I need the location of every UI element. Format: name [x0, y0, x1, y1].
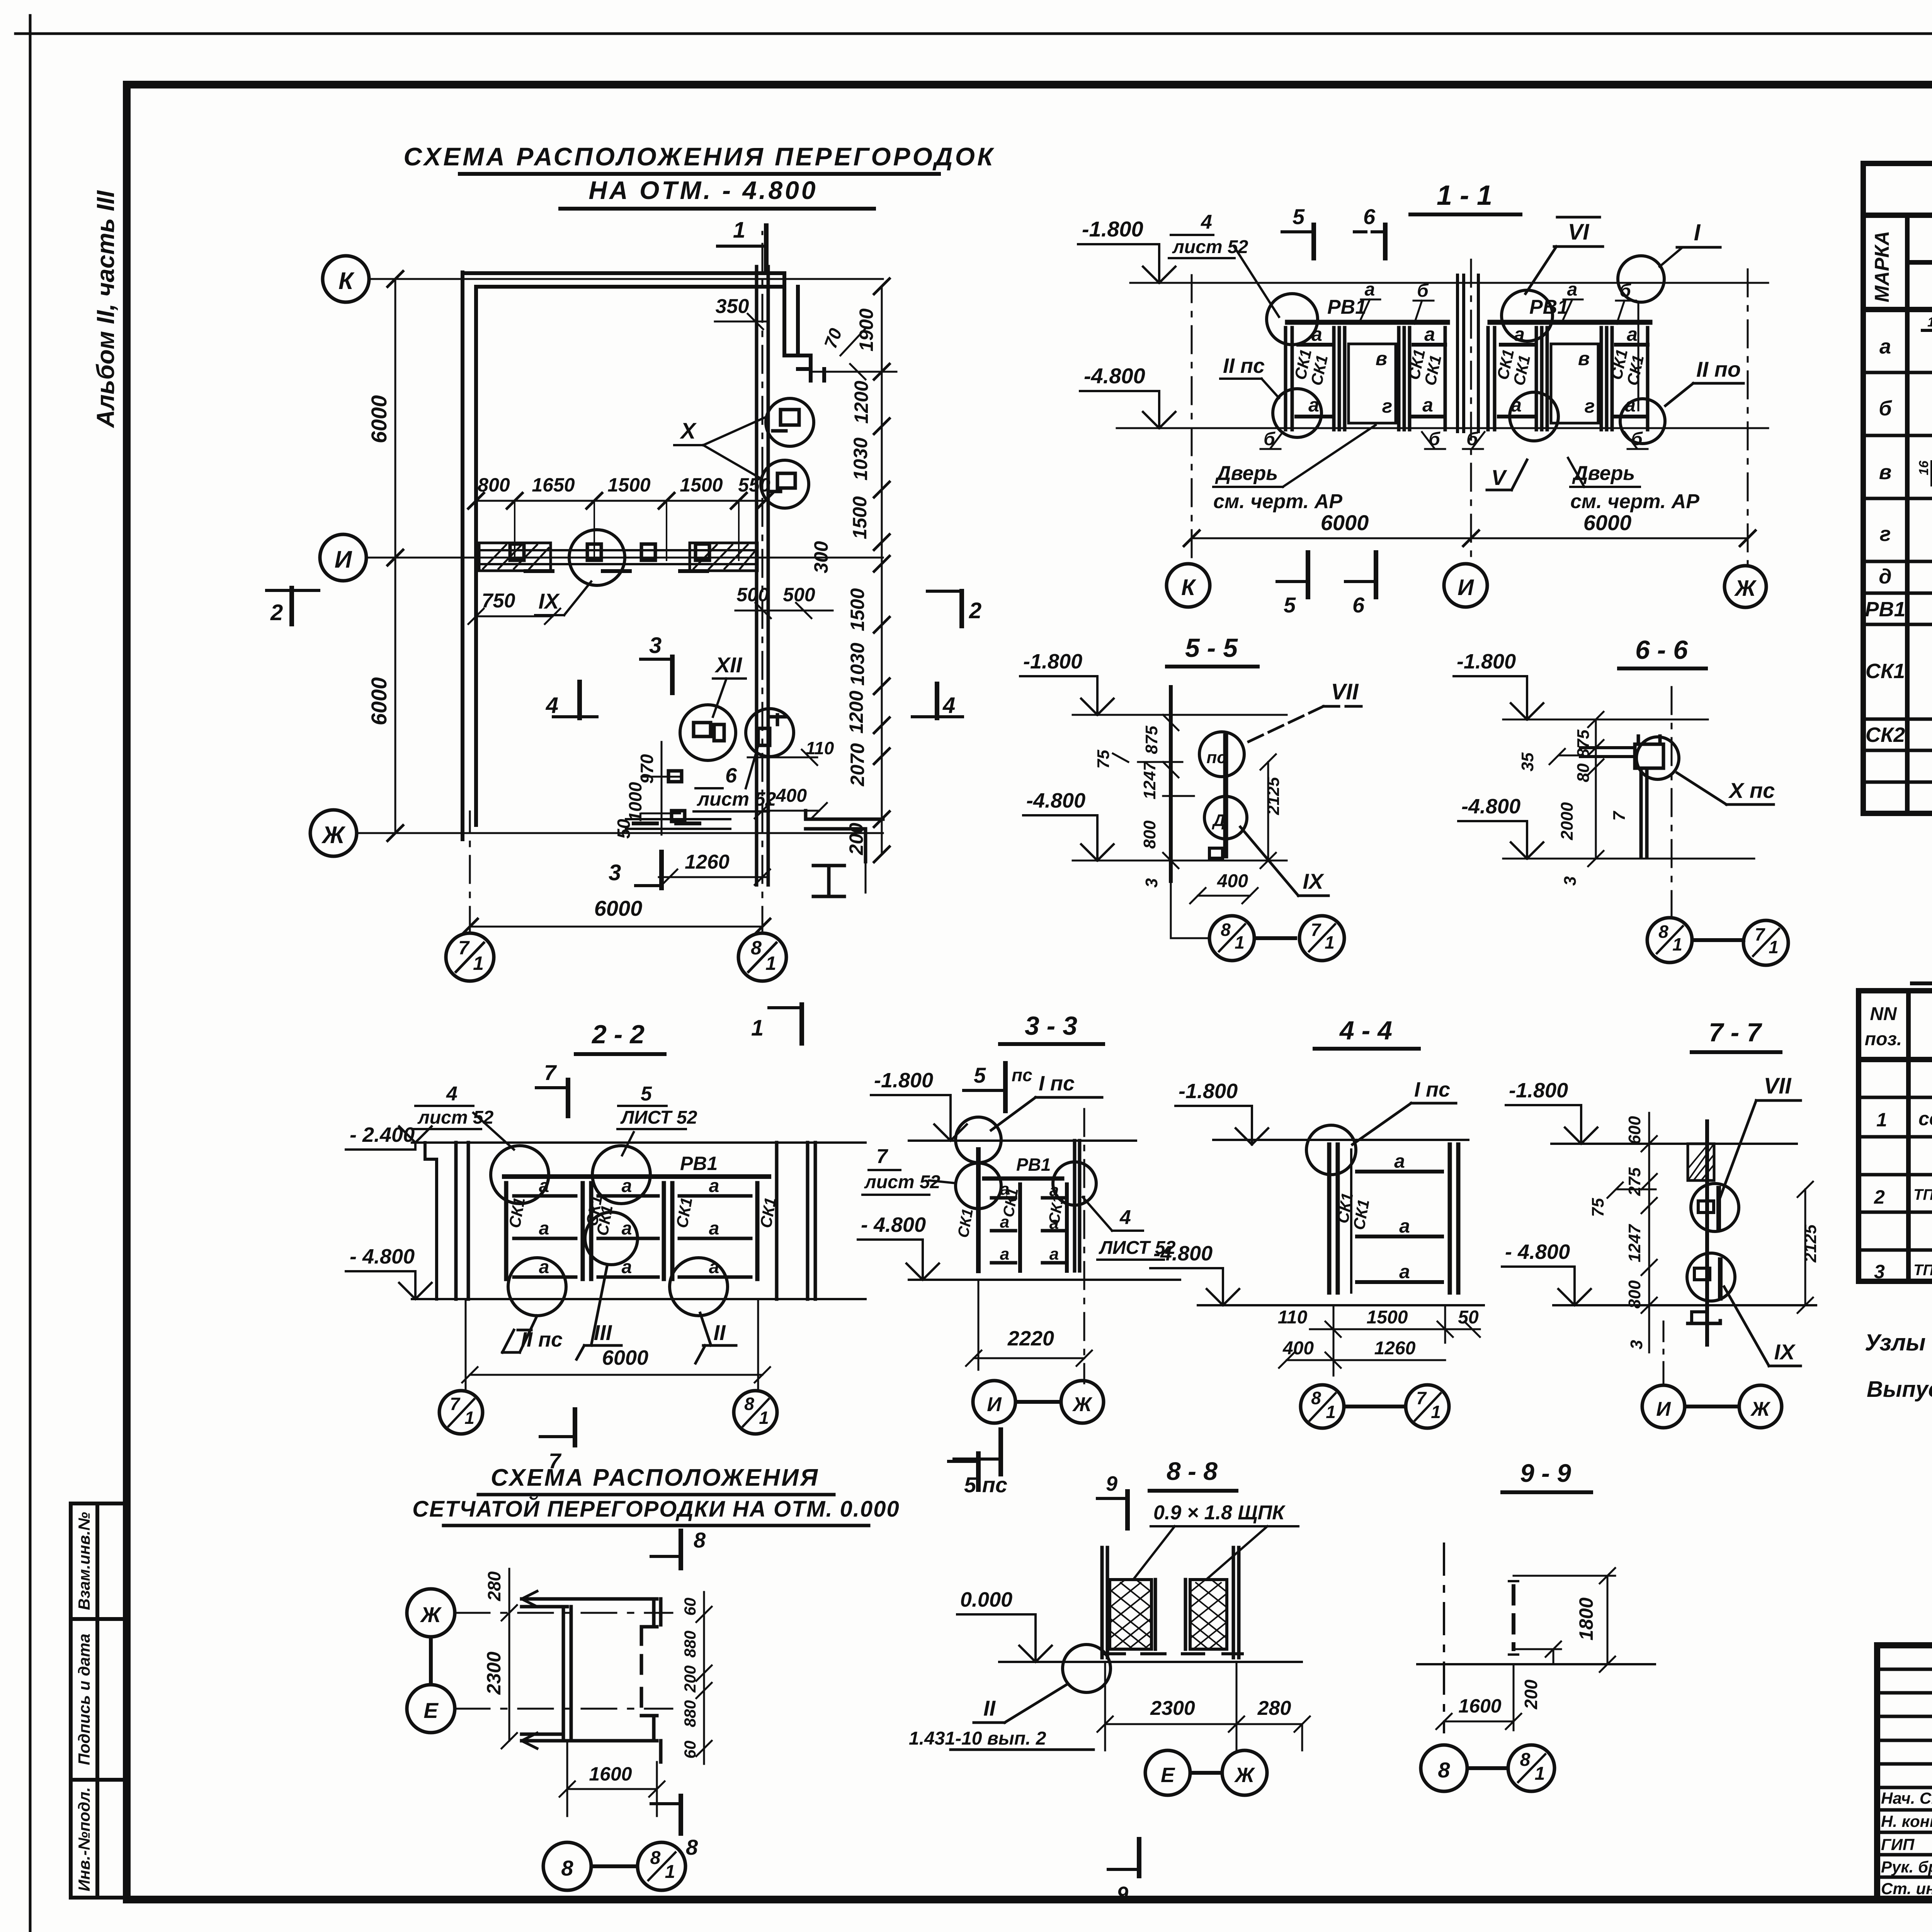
svg-text:6000: 6000 [1583, 510, 1632, 535]
svg-text:800: 800 [1625, 1280, 1644, 1309]
svg-text:500: 500 [736, 584, 769, 605]
svg-text:-1.800: -1.800 [874, 1069, 933, 1092]
svg-text:Выпуск 0: Выпуск 0 [1867, 1377, 1932, 1402]
level -1.800 [1020, 650, 1114, 715]
axis circle 8 9-9 [1421, 1745, 1467, 1791]
spec column lines [1908, 991, 1932, 1281]
svg-text:а: а [1422, 394, 1433, 416]
svg-text:- 2.400: - 2.400 [350, 1123, 415, 1146]
svg-text:б: б [1264, 429, 1276, 449]
axis Zh dash line [1747, 269, 1749, 564]
svg-text:Узлы I , II , III , IV , V ,: Узлы I , II , III , IV , V , VI , VII , … [1865, 1330, 1932, 1355]
dim 2300 setka [483, 1605, 517, 1748]
RV1 bar 3-3 [984, 1177, 1062, 1181]
level -4.800 2-2 [346, 1245, 432, 1299]
svg-text:Рук. бр.: Рук. бр. [1881, 1858, 1932, 1876]
svg-text:И: И [335, 546, 352, 573]
svg-text:II по: II по [1696, 357, 1741, 381]
svg-text:СК2: СК2 [1866, 723, 1905, 747]
dim 1800 9-9 [1514, 1568, 1641, 1672]
vedomost row lines [1863, 341, 1932, 782]
hatched top box 7-7 [1688, 1144, 1714, 1180]
rails a 4-4 [1357, 1172, 1442, 1282]
axis circle I 3-3 [973, 1381, 1015, 1423]
section mark 3 top [641, 633, 672, 693]
svg-text:б: б [1631, 429, 1643, 449]
svg-text:СЕТЧАТОЙ ПЕРЕГОРОДКИ НА ОТМ. 0: СЕТЧАТОЙ ПЕРЕГОРОДКИ НА ОТМ. 0.000 [412, 1496, 900, 1522]
hatched box right on I [690, 543, 757, 571]
axis circle K sec11 [1167, 564, 1210, 607]
panel group I-Zh [1463, 279, 1650, 449]
svg-text:4: 4 [546, 693, 558, 718]
svg-text:2070: 2070 [847, 743, 868, 786]
svg-text:Х пс: Х пс [1728, 778, 1775, 803]
panel rails 3-3 [992, 1198, 1064, 1263]
dim 1900 top tail [811, 364, 896, 379]
svg-text:8: 8 [686, 1835, 698, 1859]
svg-text:а: а [709, 1218, 719, 1239]
detail circle D [1204, 796, 1247, 839]
svg-text:- 4.800: - 4.800 [1505, 1240, 1570, 1264]
svg-text:8: 8 [650, 1848, 661, 1868]
svg-text:1: 1 [665, 1862, 675, 1882]
svg-text:I: I [1694, 219, 1701, 245]
dim 400 5-5 [1190, 871, 1258, 903]
svg-text:а: а [1627, 323, 1638, 345]
SK1 rotated labels 2-2 [505, 1194, 780, 1237]
label III 2-2 [577, 1264, 621, 1359]
axis circle Zh 3-3 [1061, 1381, 1104, 1423]
svg-text:Ж: Ж [1234, 1764, 1255, 1787]
axis circle 8 setka [543, 1842, 591, 1890]
svg-text:-4.800: -4.800 [1153, 1242, 1213, 1265]
label II 1.431-10 [909, 1685, 1094, 1750]
svg-text:-1.800: -1.800 [1509, 1079, 1568, 1102]
svg-text:200: 200 [681, 1665, 699, 1693]
right dim chain vertical [874, 279, 889, 862]
left double stile [456, 1143, 468, 1299]
dim 200 9-9 [1514, 1641, 1561, 1709]
svg-text:Ж: Ж [1072, 1393, 1093, 1416]
Zh axis wall 3-3 [1075, 1141, 1080, 1271]
svg-text:Х: Х [680, 418, 697, 444]
svg-text:V: V [1491, 465, 1507, 490]
SK1 rotated 3-3 [955, 1187, 1067, 1239]
svg-text:2220: 2220 [1007, 1327, 1054, 1350]
svg-text:2125: 2125 [1801, 1225, 1820, 1263]
section mark 8 top setka [651, 1528, 706, 1568]
svg-text:1500: 1500 [847, 588, 868, 631]
svg-text:К: К [338, 268, 355, 294]
svg-text:IX: IX [1303, 869, 1325, 893]
svg-text:I пс: I пс [1039, 1072, 1075, 1095]
section mark 8 bottom setka [651, 1796, 698, 1859]
dim 750 [468, 590, 560, 624]
svg-text:110: 110 [1278, 1307, 1308, 1328]
svg-text:1: 1 [751, 1015, 764, 1041]
level line top 6-6 [1503, 719, 1708, 721]
panel grid 2-2 [506, 1183, 757, 1279]
RV1 top bar [1287, 320, 1447, 325]
level line bottom [1117, 427, 1768, 429]
svg-text:МАРКА: МАРКА [1871, 231, 1893, 302]
svg-text:9: 9 [1117, 1883, 1128, 1906]
svg-text:5: 5 [1284, 593, 1296, 617]
dims rotated 5-5 [1094, 726, 1283, 888]
svg-text:1600: 1600 [1458, 1695, 1501, 1717]
svg-text:Альбом II, часть III: Альбом II, часть III [92, 190, 119, 429]
axis circle Zh 7-7 [1739, 1385, 1782, 1428]
label Xps [1677, 773, 1775, 804]
svg-text:а: а [1399, 1261, 1410, 1282]
svg-text:д: д [1879, 565, 1891, 588]
dim 200 bottom right [865, 862, 867, 893]
svg-text:350: 350 [716, 295, 749, 318]
label VI [1526, 217, 1603, 294]
svg-text:Взам.инв.№: Взам.инв.№ [75, 1512, 93, 1610]
label IIpo + circle [1620, 357, 1743, 444]
section mark 2 right [927, 591, 981, 626]
level -1.800 [1454, 650, 1543, 719]
detail circle left 3-3 [956, 1163, 1001, 1209]
svg-text:-1.800: -1.800 [1023, 650, 1082, 673]
axis circle 8/1 setka [638, 1842, 685, 1890]
section mark 1 top [718, 218, 766, 272]
bottom L member 7-7 [1688, 1321, 1720, 1323]
dims 110 1500 50 [1310, 1305, 1480, 1376]
svg-text:XII: XII [714, 653, 743, 677]
svg-text:8: 8 [1311, 1388, 1321, 1408]
svg-text:400: 400 [1217, 871, 1248, 891]
svg-text:3: 3 [649, 633, 662, 658]
svg-text:а: а [1394, 1150, 1405, 1172]
svg-text:7: 7 [1755, 924, 1765, 944]
a letters 2-2 [539, 1176, 719, 1277]
svg-text:4 - 4: 4 - 4 [1339, 1016, 1392, 1045]
svg-text:1030: 1030 [850, 437, 871, 480]
hatched panel 2 8-8 [1190, 1580, 1227, 1649]
axis circle 7/1 [446, 933, 494, 981]
level line bottom 5-5 [1073, 860, 1287, 862]
dim 6000 2-2 [462, 1367, 770, 1383]
section mark 7 bottom 2-2 [540, 1410, 575, 1473]
svg-text:- 4.800: - 4.800 [350, 1245, 415, 1268]
svg-text:2000: 2000 [1558, 802, 1577, 840]
svg-text:8: 8 [561, 1856, 573, 1880]
left stiles [1286, 328, 1292, 430]
dim ticks 5-5 [1113, 715, 1276, 868]
dashed panel 9-9 [1512, 1586, 1515, 1649]
member vertical thick [1223, 736, 1228, 856]
svg-text:Инв.-№подл.: Инв.-№подл. [75, 1787, 93, 1891]
post vertical 7-7 [1705, 1121, 1709, 1345]
svg-text:1500: 1500 [849, 496, 871, 539]
svg-text:-4.800: -4.800 [1084, 364, 1145, 388]
detail circles 7-7 [1691, 1184, 1739, 1231]
svg-text:8: 8 [1438, 1758, 1450, 1782]
svg-text:3: 3 [1874, 1261, 1885, 1282]
a letters 3-3 [1000, 1180, 1059, 1264]
svg-text:СХЕМА РАСПОЛОЖЕНИЯ ПЕРЕГОРОДОК: СХЕМА РАСПОЛОЖЕНИЯ ПЕРЕГОРОДОК [403, 142, 995, 171]
vedomost column lines [1907, 215, 1932, 813]
axis circle Zh 8-8 [1222, 1750, 1267, 1795]
section mark 9 top [1097, 1472, 1128, 1528]
section mark 4 right [912, 684, 963, 718]
post vertical 3-3 [976, 1150, 981, 1271]
svg-text:880: 880 [681, 1631, 699, 1658]
svg-text:7 - 7: 7 - 7 [1709, 1018, 1762, 1047]
level -4.800 4-4 [1150, 1242, 1239, 1305]
level -1.800 4-4 [1175, 1080, 1268, 1145]
svg-text:Подпись и дата: Подпись и дата [75, 1634, 93, 1765]
horizontal member 6-6 [1580, 748, 1634, 757]
svg-text:а: а [1424, 323, 1435, 345]
svg-text:Ст. инж.: Ст. инж. [1881, 1879, 1932, 1898]
svg-text:6 - 6: 6 - 6 [1635, 635, 1688, 665]
svg-text:6000: 6000 [367, 395, 391, 444]
vedomost eskiz dim texts [1917, 314, 1932, 704]
svg-text:9 - 9: 9 - 9 [1520, 1459, 1571, 1487]
svg-text:1: 1 [1325, 932, 1335, 952]
svg-text:лист 52: лист 52 [864, 1172, 940, 1192]
svg-text:1500: 1500 [680, 474, 723, 496]
svg-text:1247: 1247 [1140, 761, 1159, 799]
svg-text:75: 75 [1588, 1198, 1607, 1217]
door box [1349, 344, 1396, 423]
svg-text:9: 9 [1106, 1472, 1117, 1495]
section mark 1 right [751, 1005, 802, 1043]
axis vertical 6-6 [1671, 687, 1673, 918]
svg-text:300: 300 [810, 541, 832, 573]
vedomost marka letters [1865, 335, 1905, 747]
svg-text:6: 6 [1363, 204, 1376, 229]
svg-text:3: 3 [1627, 1340, 1646, 1349]
1-1 dim line [1184, 531, 1755, 546]
svg-text:ТП-416-3 -13.86-КИ л. 50: ТП-416-3 -13.86-КИ л. 50 [1913, 1262, 1932, 1279]
detail circle right 3-3 [1053, 1162, 1096, 1205]
section mark 5ps top [964, 1063, 1032, 1111]
svg-text:-1.800: -1.800 [1179, 1080, 1238, 1103]
svg-text:800: 800 [478, 474, 510, 496]
svg-text:0.000: 0.000 [960, 1588, 1012, 1611]
door note right [1568, 458, 1699, 513]
svg-text:лист 52: лист 52 [697, 788, 776, 810]
svg-text:6: 6 [1352, 593, 1365, 617]
svg-text:1260: 1260 [1374, 1338, 1416, 1359]
svg-text:IX: IX [1774, 1340, 1796, 1364]
panel box 6-6 [1635, 736, 1663, 857]
svg-text:в: в [1376, 348, 1387, 369]
axis circle 8/1 4-4 [1301, 1385, 1344, 1428]
members 7-7 [1719, 1188, 1720, 1298]
svg-text:6000: 6000 [602, 1346, 648, 1369]
level line top [1130, 282, 1768, 284]
svg-text:500: 500 [783, 584, 815, 605]
svg-text:4: 4 [942, 693, 955, 718]
X detail circles right [766, 398, 814, 446]
svg-text:2300: 2300 [483, 1651, 505, 1695]
dims 970 1000 50 rotated [614, 754, 657, 838]
axis I dash line [1470, 260, 1472, 564]
section mark 5ps bottom [954, 1430, 1007, 1497]
label IIps 2-2 [502, 1316, 563, 1352]
dims 2300 280 8-8 [1097, 1662, 1310, 1750]
svg-text:3: 3 [1142, 878, 1161, 888]
svg-text:пс: пс [1012, 1065, 1032, 1085]
axis circle I [320, 534, 366, 581]
label IX 5-5 [1240, 827, 1328, 896]
svg-text:в: в [1578, 348, 1590, 369]
label 4 list 52 [1169, 211, 1279, 317]
top line 2-2 [412, 1141, 866, 1144]
level -1.800 mark [1078, 217, 1175, 283]
svg-text:7: 7 [1311, 920, 1321, 940]
svg-text:1200: 1200 [845, 690, 867, 733]
building top wall [463, 273, 784, 287]
detail circles 2-2 [491, 1146, 549, 1204]
svg-text:4: 4 [1201, 211, 1212, 233]
svg-text:1: 1 [1235, 932, 1245, 952]
svg-text:400: 400 [1282, 1338, 1314, 1359]
level -4.800 7-7 [1502, 1240, 1591, 1305]
uzly note [1865, 1330, 1932, 1402]
RV1 bar 2-2 [504, 1174, 769, 1179]
building left wall [463, 272, 476, 839]
dim 280 setka [484, 1569, 509, 1613]
panel verticals 3-3 [1020, 1184, 1067, 1271]
svg-text:1600: 1600 [589, 1763, 632, 1785]
svg-text:VII: VII [1331, 679, 1359, 704]
svg-text:Ж: Ж [1750, 1398, 1771, 1420]
svg-text:пс: пс [1206, 748, 1226, 767]
svg-text:II пс: II пс [1223, 354, 1265, 378]
svg-text:550: 550 [738, 474, 770, 496]
svg-text:50: 50 [1458, 1307, 1479, 1328]
dim 350 [715, 295, 769, 329]
svg-text:3: 3 [609, 860, 621, 885]
svg-text:ЛИСТ 52: ЛИСТ 52 [620, 1107, 697, 1128]
svg-text:1260: 1260 [685, 851, 730, 873]
arrows setka [522, 1591, 537, 1748]
axis circle 7/1 2-2 [439, 1391, 483, 1434]
detail circle 6-6 [1636, 737, 1679, 779]
svg-text:г: г [1585, 395, 1595, 417]
svg-text:Е: Е [423, 1698, 439, 1723]
ground line 8-8 [999, 1661, 1302, 1663]
svg-text:8: 8 [1520, 1750, 1531, 1770]
svg-text:1: 1 [765, 952, 776, 974]
svg-text:5: 5 [641, 1083, 652, 1105]
dim 2220 [966, 1280, 1092, 1370]
svg-text:см. черт. АР: см. черт. АР [1570, 490, 1699, 513]
svg-text:400: 400 [776, 786, 807, 806]
right dims setka 60 880 200 880 60 [681, 1598, 699, 1759]
spec outer box [1859, 991, 1932, 1281]
svg-text:VI: VI [1568, 219, 1590, 245]
level -4.800 [1458, 795, 1543, 859]
svg-text:IX: IX [539, 589, 561, 613]
level line top 7-7 [1551, 1143, 1797, 1145]
svg-text:7: 7 [1416, 1388, 1427, 1408]
svg-text:И: И [1458, 575, 1474, 600]
title block signature texts [1881, 1789, 1932, 1898]
left margin stamp boxes [71, 1503, 126, 1898]
svg-text:5: 5 [1293, 204, 1305, 229]
axis circle E 8-8 [1145, 1750, 1190, 1795]
svg-text:а: а [1049, 1245, 1059, 1264]
partition along I axis [476, 550, 757, 571]
svg-text:РВ1: РВ1 [1865, 598, 1905, 621]
svg-text:б: б [1429, 429, 1440, 449]
svg-text:NN: NN [1870, 1004, 1897, 1024]
svg-text:II: II [713, 1320, 726, 1345]
detail circle 8-8 [1063, 1645, 1111, 1692]
svg-text:110: 110 [806, 738, 834, 758]
feet 8-8 [1105, 1652, 1242, 1655]
label VII 5-5 [1248, 679, 1368, 742]
label II 2-2 [696, 1313, 736, 1363]
svg-text:1: 1 [733, 218, 745, 243]
svg-text:лист 52: лист 52 [417, 1107, 494, 1128]
dims rotated 7-7 [1588, 1116, 1820, 1349]
svg-text:1: 1 [473, 952, 484, 974]
left vertical dim 6000/6000 [388, 271, 403, 841]
svg-text:280: 280 [1257, 1697, 1291, 1719]
section mark 3 bottom [609, 852, 662, 888]
dim 70 rotated [820, 325, 866, 355]
svg-text:-4.800: -4.800 [1026, 789, 1085, 812]
svg-text:см. черт. АР: см. черт. АР [1213, 490, 1342, 513]
door note left [1213, 425, 1376, 513]
axis lines setka [455, 1613, 672, 1709]
svg-text:-1.800: -1.800 [1082, 217, 1143, 241]
svg-text:1247: 1247 [1625, 1224, 1644, 1262]
svg-text:3: 3 [1561, 876, 1580, 886]
right stiles [1444, 328, 1447, 430]
svg-text:лист 52: лист 52 [1172, 237, 1248, 257]
label 5 list52 2-2 [617, 1083, 697, 1155]
svg-text:1: 1 [1927, 315, 1932, 330]
level line top 5-5 [1073, 714, 1287, 716]
svg-text:6000: 6000 [367, 677, 391, 726]
level line bottom 3-3 [909, 1279, 1180, 1281]
svg-text:6000: 6000 [594, 896, 643, 920]
svg-text:VII: VII [1764, 1073, 1792, 1099]
label IX 7-7 [1724, 1287, 1801, 1366]
svg-text:2300: 2300 [1150, 1697, 1195, 1719]
svg-text:970: 970 [637, 754, 657, 784]
svg-text:а: а [1879, 335, 1891, 358]
svg-text:75: 75 [1094, 750, 1113, 769]
svg-text:6000: 6000 [1321, 510, 1369, 535]
svg-text:в: в [1879, 461, 1892, 484]
svg-text:875: 875 [1142, 726, 1161, 754]
posts 8-8 [1102, 1548, 1239, 1658]
svg-text:0.9 × 1.8 ЩПК: 0.9 × 1.8 ЩПК [1153, 1502, 1286, 1524]
level line bottom 7-7 [1553, 1304, 1816, 1306]
label V [1487, 460, 1527, 490]
label 6 list52 [694, 746, 776, 811]
posts on I partition [510, 544, 709, 560]
svg-text:Д: Д [1211, 811, 1225, 830]
svg-text:серия 1.431-10 в.2: серия 1.431-10 в.2 [1918, 1108, 1932, 1129]
svg-text:Н. контр.: Н. контр. [1881, 1812, 1932, 1830]
svg-text:8: 8 [751, 937, 762, 959]
section mark 6 top [1354, 204, 1385, 258]
axis circle 8/1 2-2 [734, 1391, 777, 1434]
level -4.800 mark [1080, 364, 1175, 428]
detail circle top 3-3 [956, 1117, 1001, 1163]
